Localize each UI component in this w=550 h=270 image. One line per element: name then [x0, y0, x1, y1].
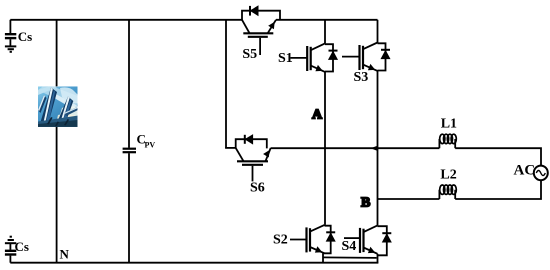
- bottom rail N: [10, 262, 378, 264]
- diode D3: [378, 43, 391, 70]
- wire C_PV branch upper: [128, 20, 130, 148]
- svg-text:Cs: Cs: [15, 239, 29, 254]
- svg-text:L1: L1: [441, 117, 457, 132]
- arrow S6 emitter: [263, 150, 270, 158]
- inductor L1: [439, 134, 456, 148]
- transistor S3: [342, 43, 378, 71]
- capacitor C_PV: [123, 149, 136, 153]
- panel wedge 2: [57, 97, 74, 126]
- ground (top Cs): [5, 46, 16, 51]
- wire S4 emitter to bottom rail: [377, 254, 379, 263]
- transistor S5 with freewheeling loop: [242, 11, 280, 55]
- capacitor Cs (top-left): [5, 20, 16, 46]
- wire A leg middle: [324, 72, 326, 225]
- svg-text:S1: S1: [278, 51, 293, 66]
- wire top rail left segment: [10, 19, 242, 21]
- transistor S2: [290, 225, 325, 253]
- capacitor Cs (bottom-left): [5, 244, 16, 263]
- diode D2: [323, 226, 335, 254]
- diode D4: [378, 226, 392, 255]
- ground band: [38, 116, 78, 128]
- wire top rail right segment: [276, 19, 378, 21]
- diode D5: [250, 6, 258, 16]
- diode D1: [325, 44, 338, 71]
- wire S2-S4 emitter link: [323, 256, 377, 259]
- PV panel photo: [38, 84, 78, 127]
- wire B leg (rail corner to S3, S3 to node B): [377, 20, 379, 43]
- wire S6 left stub: [225, 147, 236, 149]
- svg-text:S3: S3: [354, 70, 369, 85]
- panel wedge 1: [41, 88, 58, 124]
- far panel row right: [64, 107, 78, 117]
- wire PV string vertical: [56, 20, 58, 263]
- wire A leg top: [324, 20, 326, 44]
- svg-text:S2: S2: [273, 233, 288, 248]
- arrow S1 emitter: [315, 65, 322, 71]
- transistor S6 with freewheeling loop: [236, 139, 271, 181]
- small left wedge: [38, 95, 47, 113]
- arrow S3 emitter: [368, 64, 375, 70]
- arrow on output wire at B-leg crossing: [371, 146, 378, 151]
- wire L1 to AC top: [455, 148, 541, 166]
- transistor S1: [291, 43, 326, 72]
- wire node B to L2: [378, 198, 440, 200]
- svg-text:N: N: [60, 246, 70, 261]
- svg-text:S4: S4: [342, 239, 357, 254]
- svg-text:B: B: [361, 196, 370, 211]
- wire S6 output to L1: [271, 147, 440, 149]
- wire S6 branch vertical: [225, 20, 227, 148]
- svg-text:S5: S5: [242, 47, 257, 62]
- svg-text:Cs: Cs: [18, 29, 32, 44]
- svg-text:S6: S6: [250, 181, 265, 196]
- arrow S4 emitter: [368, 247, 375, 253]
- wire S2 emitter to bottom rail: [322, 253, 324, 262]
- AC source: [534, 166, 548, 181]
- transistor S4: [344, 225, 378, 253]
- svg-text:L2: L2: [440, 168, 456, 183]
- arrow S5 emitter: [268, 22, 275, 30]
- svg-text:PV: PV: [145, 141, 156, 150]
- inductor L2: [439, 185, 456, 199]
- diode D6: [245, 135, 253, 144]
- svg-text:AC: AC: [514, 162, 536, 178]
- wire AC bottom to L2: [455, 180, 541, 199]
- ground (bottom Cs): [5, 237, 16, 244]
- arrow S2 emitter: [315, 246, 322, 252]
- svg-text:A: A: [312, 107, 323, 122]
- wire C_PV branch lower: [128, 153, 130, 263]
